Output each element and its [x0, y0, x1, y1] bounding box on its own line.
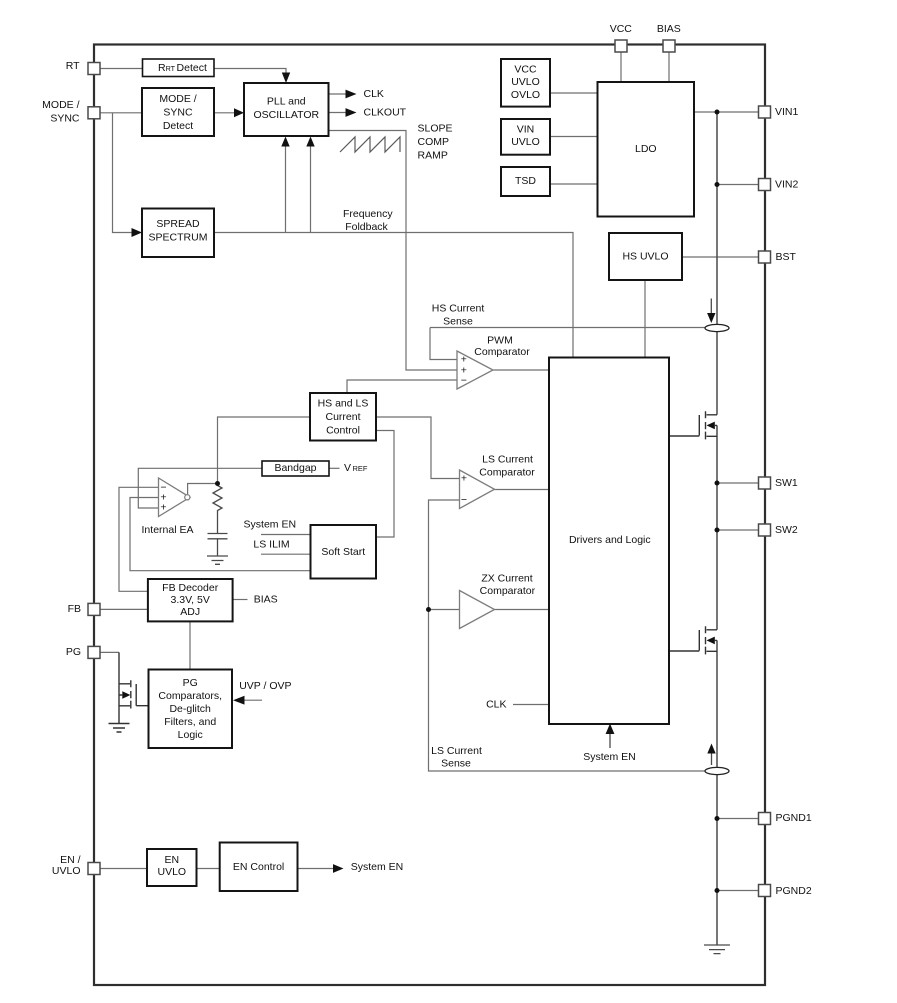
svg-text:+: +: [160, 502, 166, 514]
svg-text:BIAS: BIAS: [657, 23, 681, 35]
svg-text:MODE /: MODE /: [42, 99, 79, 111]
svg-text:System EN: System EN: [244, 518, 297, 530]
svg-text:ZX Current: ZX Current: [481, 573, 532, 585]
svg-text:Current: Current: [325, 411, 360, 423]
svg-text:VCC: VCC: [610, 23, 633, 35]
svg-text:3.3V, 5V: 3.3V, 5V: [171, 594, 210, 606]
svg-text:De-glitch: De-glitch: [169, 703, 211, 715]
svg-text:BST: BST: [776, 251, 797, 263]
svg-text:RAMP: RAMP: [418, 149, 448, 161]
svg-text:UVLO: UVLO: [158, 866, 187, 878]
svg-text:UVP / OVP: UVP / OVP: [239, 680, 291, 692]
svg-text:Comparator: Comparator: [474, 346, 530, 358]
svg-text:EN: EN: [165, 854, 180, 866]
svg-text:ADJ: ADJ: [180, 606, 200, 618]
svg-text:PG: PG: [66, 646, 81, 658]
svg-text:Control: Control: [326, 424, 360, 436]
svg-text:HS and LS: HS and LS: [318, 397, 369, 409]
svg-text:Frequency: Frequency: [343, 208, 393, 220]
svg-text:Foldback: Foldback: [345, 221, 388, 233]
svg-text:UVLO: UVLO: [52, 865, 81, 877]
svg-text:PLL and: PLL and: [267, 95, 306, 107]
svg-text:PG: PG: [183, 677, 198, 689]
svg-text:CLKOUT: CLKOUT: [364, 107, 407, 119]
svg-text:LDO: LDO: [635, 143, 657, 155]
svg-text:BIAS: BIAS: [254, 594, 278, 606]
svg-text:SPECTRUM: SPECTRUM: [149, 232, 208, 244]
svg-text:LS Current: LS Current: [431, 745, 482, 757]
svg-text:MODE /: MODE /: [159, 93, 196, 105]
svg-text:EN Control: EN Control: [233, 861, 284, 873]
svg-text:CLK: CLK: [364, 88, 384, 100]
svg-text:FB: FB: [68, 603, 81, 615]
svg-text:TSD: TSD: [515, 175, 536, 187]
svg-text:Bandgap: Bandgap: [274, 462, 316, 474]
svg-text:OVLO: OVLO: [511, 89, 540, 101]
svg-text:Drivers and Logic: Drivers and Logic: [569, 534, 651, 546]
svg-text:UVLO: UVLO: [511, 136, 540, 148]
svg-text:OSCILLATOR: OSCILLATOR: [254, 109, 320, 121]
svg-text:−: −: [461, 375, 467, 387]
svg-text:Sense: Sense: [441, 757, 471, 769]
svg-text:VREF: VREF: [344, 462, 368, 474]
svg-text:VIN1: VIN1: [775, 106, 799, 118]
svg-text:LS Current: LS Current: [482, 454, 533, 466]
svg-text:Comparators,: Comparators,: [158, 690, 222, 702]
svg-text:−: −: [461, 494, 467, 506]
svg-text:Soft Start: Soft Start: [321, 546, 365, 558]
svg-text:COMP: COMP: [418, 136, 450, 148]
svg-text:RT: RT: [66, 60, 80, 72]
svg-text:EN /: EN /: [60, 854, 81, 866]
svg-text:Detect: Detect: [163, 120, 193, 132]
svg-text:Comparator: Comparator: [480, 585, 536, 597]
svg-text:System EN: System EN: [351, 861, 404, 873]
svg-text:SW2: SW2: [775, 524, 798, 536]
svg-text:CLK: CLK: [486, 698, 506, 710]
svg-text:Filters, and: Filters, and: [164, 716, 216, 728]
svg-text:VIN: VIN: [517, 124, 535, 136]
svg-text:Internal EA: Internal EA: [142, 524, 194, 536]
svg-text:RRTDetect: RRTDetect: [158, 62, 207, 74]
svg-text:SYNC: SYNC: [50, 112, 80, 124]
svg-text:+: +: [461, 473, 467, 485]
svg-text:HS UVLO: HS UVLO: [622, 251, 668, 263]
svg-text:HS Current: HS Current: [432, 303, 485, 315]
svg-text:VCC: VCC: [514, 64, 537, 76]
svg-text:SYNC: SYNC: [163, 107, 193, 119]
svg-text:UVLO: UVLO: [511, 76, 540, 88]
svg-text:PGND1: PGND1: [776, 812, 812, 824]
svg-text:SLOPE: SLOPE: [418, 123, 453, 135]
svg-text:PGND2: PGND2: [776, 885, 812, 897]
svg-text:FB Decoder: FB Decoder: [162, 582, 219, 594]
svg-text:System EN: System EN: [583, 751, 636, 763]
svg-text:LS ILIM: LS ILIM: [253, 538, 289, 550]
svg-text:Logic: Logic: [178, 729, 203, 741]
svg-text:SPREAD: SPREAD: [156, 218, 200, 230]
svg-text:Comparator: Comparator: [479, 467, 535, 479]
svg-text:VIN2: VIN2: [775, 179, 799, 191]
svg-text:SW1: SW1: [775, 477, 798, 489]
svg-text:Sense: Sense: [443, 315, 473, 327]
svg-text:PWM: PWM: [487, 335, 513, 347]
